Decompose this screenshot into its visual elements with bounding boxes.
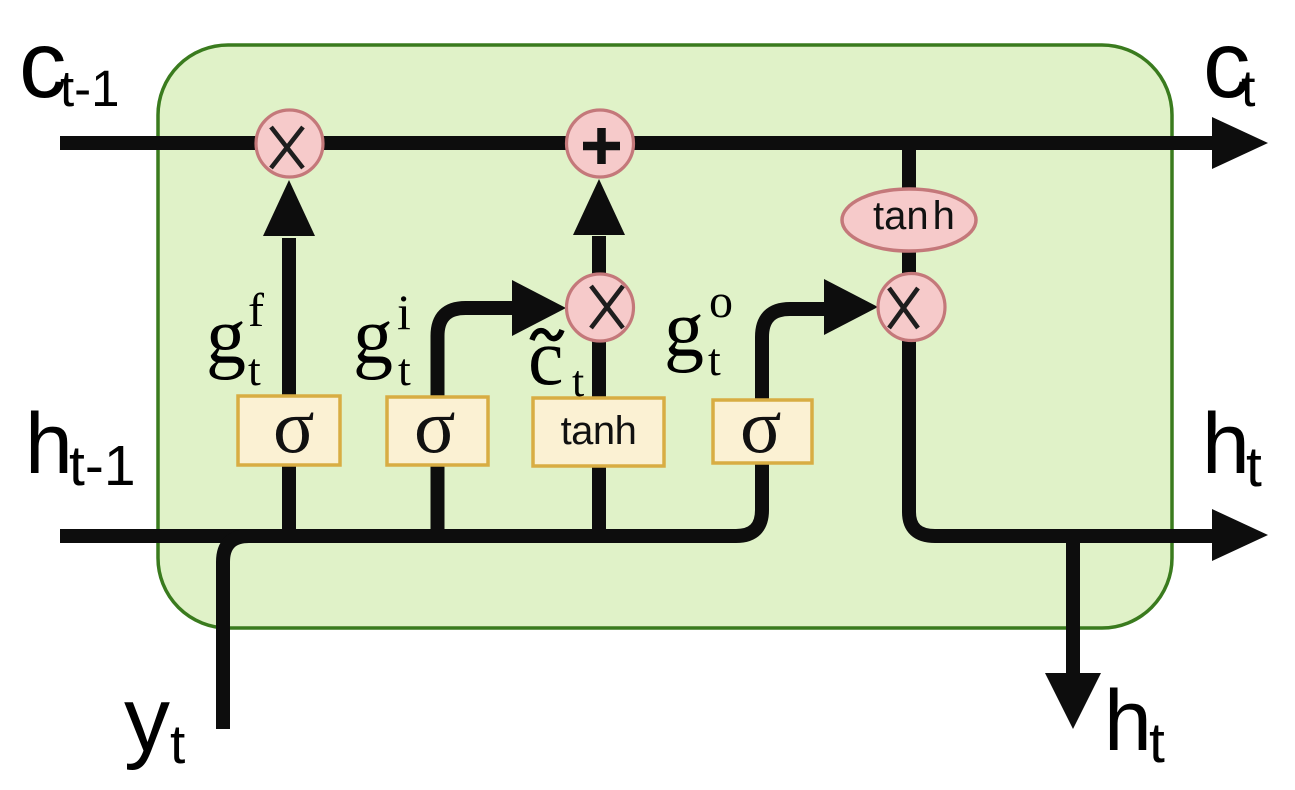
svg-text:σ: σ	[273, 383, 315, 469]
svg-text:t: t	[398, 344, 411, 395]
arrowhead into X1	[263, 180, 315, 236]
svg-text:f: f	[248, 284, 264, 337]
wire: input gate column (sigma2 up, curve right to X2)	[438, 308, 517, 541]
svg-text:tanh: tanh	[873, 194, 955, 238]
sigma box 2 (input gate)	[387, 383, 488, 469]
wire: hidden state line h (bottom horizontal, curves up into sigma4)	[60, 400, 762, 536]
wire: forget gate column (sigma1 up to X1)	[282, 238, 296, 541]
label g_t^o (output gate)	[664, 275, 733, 385]
label c_t	[1203, 12, 1256, 118]
svg-text:c: c	[528, 314, 564, 402]
tanh box (candidate activation)	[533, 398, 664, 466]
label h_t (right)	[1202, 396, 1262, 499]
label g_t^i (input gate)	[353, 284, 411, 395]
sigma box 1 (forget gate)	[238, 383, 340, 469]
svg-text:σ: σ	[740, 383, 782, 469]
node X3: output multiply	[878, 274, 945, 341]
arrowhead into X2	[512, 280, 566, 336]
arrowhead h_t output right	[1212, 509, 1268, 561]
svg-text:t: t	[1241, 60, 1256, 118]
arrowhead h_t down	[1045, 673, 1101, 729]
node X1: forget multiply	[256, 110, 323, 177]
node plus: cell state add	[567, 110, 634, 177]
svg-text:t: t	[708, 334, 721, 385]
arrowhead c_t output	[1212, 117, 1268, 169]
sigma box 4 (output gate)	[713, 383, 812, 469]
svg-text:h: h	[1202, 396, 1250, 492]
label c_{t-1}	[19, 12, 120, 118]
wire: output gate column (sigma4 up, curve right to X3)	[762, 309, 828, 400]
wire: y_t input line (curves into h line)	[223, 536, 290, 729]
node X2: input multiply	[567, 274, 634, 341]
svg-text:t: t	[170, 713, 185, 775]
label g_t^f (forget gate)	[206, 284, 264, 395]
svg-text:t-1: t-1	[60, 60, 120, 117]
svg-text:g: g	[353, 293, 393, 381]
arrowhead into X3	[824, 279, 878, 335]
svg-text:h: h	[1104, 673, 1152, 769]
tanh ellipse (cell output activation)	[842, 189, 976, 251]
svg-text:y: y	[124, 669, 170, 771]
wire: cell state line c (top horizontal)	[60, 136, 1218, 150]
svg-text:t: t	[572, 357, 584, 406]
svg-text:t-1: t-1	[69, 434, 136, 498]
svg-text:σ: σ	[414, 383, 456, 469]
LSTM cell body (rounded green box)	[158, 45, 1172, 628]
svg-text:t: t	[1149, 711, 1165, 775]
svg-text:g: g	[206, 293, 246, 381]
arrowhead into plus	[573, 179, 625, 235]
svg-text:h: h	[25, 396, 73, 492]
label c~_t (candidate)	[528, 314, 584, 406]
wire: tanh output column (c line down through tanh ellipse and X3 to h out)	[909, 150, 1216, 536]
svg-text:t: t	[248, 344, 261, 395]
svg-text:g: g	[664, 286, 704, 374]
svg-text:t: t	[1246, 435, 1262, 499]
wire: h_t branch down	[1066, 536, 1080, 676]
label h_{t-1}	[25, 396, 136, 498]
label y_t	[124, 669, 185, 775]
label h_t (bottom)	[1104, 673, 1165, 775]
svg-text:i: i	[397, 284, 411, 340]
svg-text:tanh: tanh	[561, 409, 637, 453]
svg-text:o: o	[709, 275, 733, 328]
wire: candidate column (tanh box up through X2 to plus)	[592, 236, 606, 541]
